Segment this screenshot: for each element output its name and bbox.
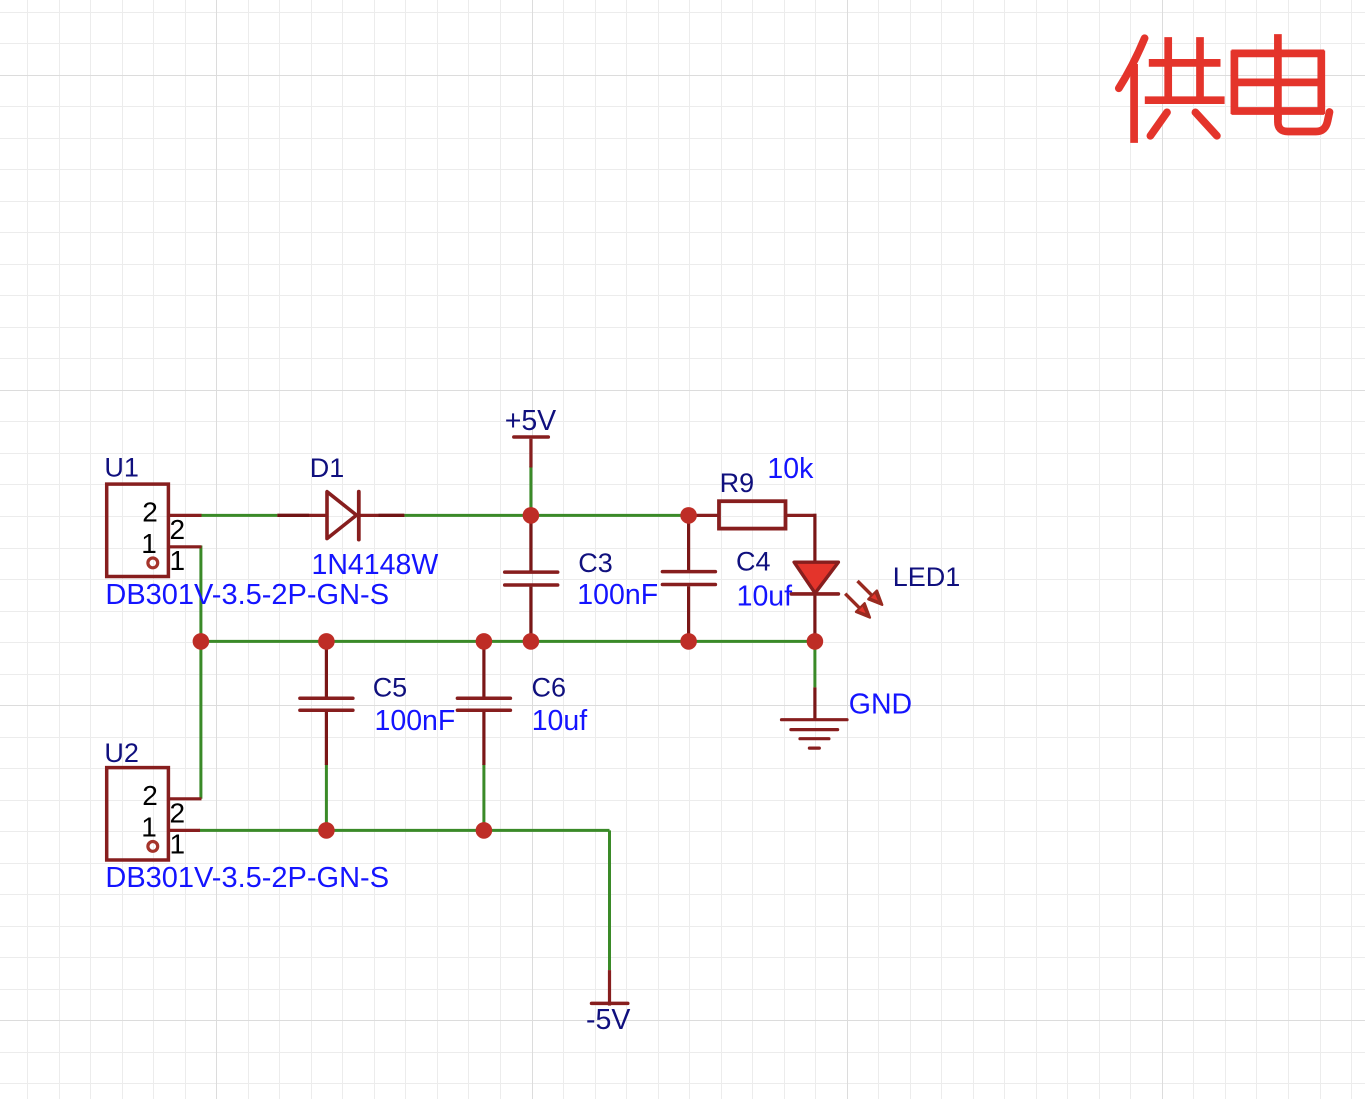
LED1 light arrow upper	[858, 581, 883, 605]
LED1 light arrow lower	[845, 594, 870, 618]
junction GND bus / C4	[680, 633, 697, 650]
junction GND bus / C3	[523, 633, 540, 650]
svg-text:C5: C5	[373, 673, 408, 703]
C6 lower lead	[482, 712, 485, 765]
R9 left pin	[689, 514, 719, 517]
diode D1 triangle	[327, 492, 357, 539]
svg-text:2: 2	[170, 797, 186, 828]
U1 pin 1 stub	[168, 545, 201, 548]
C6 upper lead	[482, 641, 485, 696]
connector U1 pin-1 circle	[148, 558, 158, 568]
LED1 cathode pin	[813, 594, 816, 642]
svg-text:2: 2	[142, 497, 158, 528]
wire D1 cathode to node +5V/R9	[404, 514, 688, 517]
connector U1 body	[107, 484, 169, 576]
svg-text:DB301V-3.5-2P-GN-S: DB301V-3.5-2P-GN-S	[105, 579, 389, 611]
capacitor C3 bottom plate	[505, 583, 558, 587]
wire red segment at D1 anode	[277, 514, 309, 517]
svg-text:-5V: -5V	[586, 1004, 630, 1036]
+5V flag stub	[529, 439, 532, 468]
svg-text:C4: C4	[736, 546, 771, 576]
svg-text:1N4148W: 1N4148W	[312, 549, 439, 581]
LED1 anode pin	[813, 514, 816, 562]
svg-text:+5V: +5V	[505, 405, 557, 437]
wire LED cathode node down to GND	[813, 641, 816, 687]
power flag +5V bar	[514, 435, 549, 439]
C3 upper lead	[529, 515, 532, 570]
svg-text:DB301V-3.5-2P-GN-S: DB301V-3.5-2P-GN-S	[105, 862, 389, 894]
svg-text:2: 2	[142, 780, 158, 811]
connector U2 pin-1 circle	[148, 842, 158, 852]
svg-text:10uf: 10uf	[532, 705, 588, 737]
diode D1 cathode bar	[357, 492, 361, 540]
svg-text:GND: GND	[849, 689, 912, 721]
capacitor C6 bottom plate	[457, 708, 510, 712]
wire -5V bus corner down	[608, 830, 611, 970]
connector U2 body	[107, 768, 169, 860]
title text 供 (Chinese)	[1119, 37, 1225, 143]
LED1 triangle	[794, 562, 838, 593]
node +5V/C3 on top wire	[523, 507, 540, 524]
junction GND bus / LED-GND	[807, 633, 824, 650]
wire GND bus horizontal	[199, 640, 815, 643]
svg-text:C3: C3	[578, 548, 613, 578]
svg-text:1: 1	[170, 829, 186, 860]
junction GND bus / C6	[476, 633, 493, 650]
D1 anode pin	[277, 514, 327, 517]
wire C6 lower lead to -5V bus	[482, 764, 485, 830]
svg-text:LED1: LED1	[893, 562, 961, 592]
capacitor C5 top plate	[300, 697, 353, 701]
GND stub	[813, 687, 816, 719]
junction GND bus / C5	[318, 633, 335, 650]
junction -5V bus / C5	[318, 822, 335, 839]
svg-text:100nF: 100nF	[375, 705, 456, 737]
R9 right pin	[786, 514, 817, 517]
wire U1 pin1 down to U2 pin2	[199, 546, 202, 799]
node C4/R9 on top wire	[680, 507, 697, 524]
svg-text:R9: R9	[720, 468, 755, 498]
ground symbol GND	[782, 720, 848, 748]
C3 lower lead	[529, 587, 532, 642]
capacitor C3 top plate	[505, 570, 558, 574]
capacitor C6 top plate	[457, 697, 510, 701]
U1 pin 2 stub	[168, 514, 201, 517]
D1 cathode pin	[359, 514, 405, 517]
svg-text:U2: U2	[104, 738, 139, 768]
svg-text:1: 1	[141, 528, 157, 559]
svg-text:2: 2	[170, 514, 186, 545]
U2 pin 2 stub	[168, 797, 201, 800]
LED1 cathode bar	[791, 592, 838, 596]
title text 电 (Chinese)	[1232, 34, 1330, 131]
wire C5 lower lead to -5V bus	[325, 764, 328, 830]
junction -5V bus / C6	[476, 822, 493, 839]
junction GND bus / U1-U2 wire	[193, 633, 210, 650]
resistor R9 body	[719, 501, 786, 528]
wire red segment at D1 cathode	[379, 514, 405, 517]
capacitor C4 top plate	[662, 570, 715, 574]
svg-text:U1: U1	[104, 453, 139, 483]
capacitor C5 bottom plate	[300, 708, 353, 712]
C5 upper lead	[325, 641, 328, 696]
svg-text:10k: 10k	[767, 453, 814, 485]
svg-text:D1: D1	[310, 453, 345, 483]
power flag -5V bar	[592, 1002, 628, 1006]
wire U1 pin2 to D1 anode	[201, 514, 277, 517]
svg-text:C6: C6	[532, 673, 567, 703]
svg-text:1: 1	[170, 545, 186, 576]
U2 pin 1 stub	[168, 829, 200, 832]
C4 lower lead	[687, 586, 690, 641]
capacitor C4 bottom plate	[662, 583, 715, 587]
C5 lower lead	[325, 712, 328, 765]
-5V flag stub	[608, 970, 611, 1006]
C4 upper lead	[687, 515, 690, 570]
svg-text:10uf: 10uf	[737, 581, 793, 613]
svg-text:100nF: 100nF	[577, 579, 658, 611]
wire +5V flag drop	[529, 466, 532, 515]
wire -5V bus horizontal	[199, 829, 609, 832]
svg-text:1: 1	[141, 811, 157, 842]
